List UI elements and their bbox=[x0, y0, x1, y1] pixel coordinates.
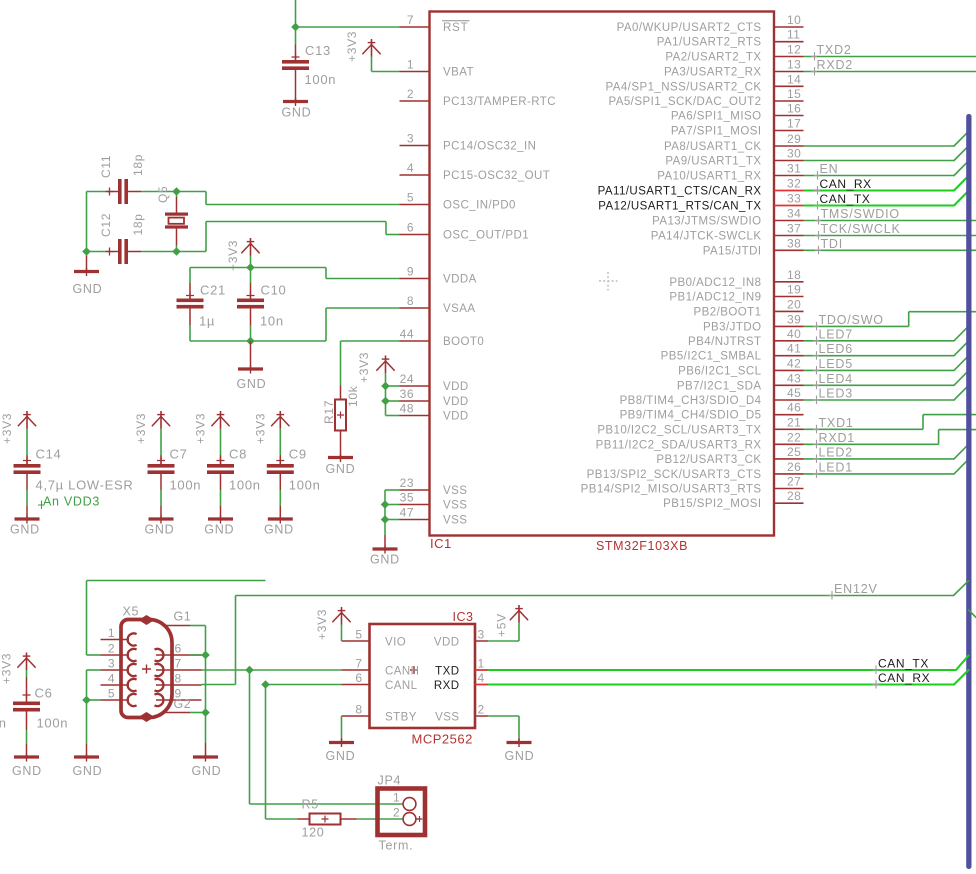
svg-text:RXD: RXD bbox=[434, 680, 460, 692]
svg-text:47: 47 bbox=[400, 506, 414, 520]
wire pin 32 to bus bbox=[804, 189, 955, 191]
svg-text:PB3/JTDO: PB3/JTDO bbox=[703, 321, 762, 333]
svg-text:8: 8 bbox=[355, 703, 362, 717]
svg-text:3: 3 bbox=[407, 132, 414, 146]
net label TMS/SWDIO bbox=[818, 216, 820, 225]
svg-text:C7: C7 bbox=[170, 447, 188, 462]
svg-text:GND: GND bbox=[326, 749, 356, 763]
wire pin 31 to bus bbox=[804, 175, 955, 177]
svg-text:C11: C11 bbox=[99, 155, 113, 178]
IC1 pin 5 OSC_IN/PD0 bbox=[400, 204, 430, 206]
svg-text:11: 11 bbox=[787, 28, 800, 42]
IC1 pin 19 PB1/ADC12_IN9 bbox=[774, 296, 804, 298]
svg-text:42: 42 bbox=[787, 356, 801, 370]
svg-text:PA1/USART2_RTS: PA1/USART2_RTS bbox=[657, 37, 762, 49]
net label RXD2 bbox=[814, 67, 816, 76]
net label LED7 bbox=[816, 336, 818, 345]
svg-text:18p: 18p bbox=[131, 213, 145, 235]
IC1 pin 35 VSS bbox=[400, 504, 430, 506]
IC1 pin 31 PA10/USART1_RX bbox=[774, 175, 804, 177]
wire VSS to ground bbox=[488, 715, 519, 717]
wire pin 25 to bus bbox=[804, 458, 955, 460]
svg-text:4: 4 bbox=[478, 671, 485, 685]
svg-text:PA12/USART1_RTS/CAN_TX: PA12/USART1_RTS/CAN_TX bbox=[598, 201, 761, 213]
net label CAN_TX bottom bbox=[875, 666, 877, 675]
svg-text:5: 5 bbox=[407, 191, 414, 205]
wire X5 pin2 CANL riser bbox=[87, 654, 101, 656]
IC1 pin 45 PB8/TIM4_CH3/SDIO_D4 bbox=[774, 399, 804, 401]
svg-text:100n: 100n bbox=[289, 478, 321, 493]
svg-text:Term.: Term. bbox=[379, 839, 414, 853]
svg-text:CAN_TX: CAN_TX bbox=[820, 192, 871, 206]
svg-text:100n: 100n bbox=[37, 716, 69, 731]
svg-text:100n: 100n bbox=[305, 72, 337, 87]
svg-text:+3V3: +3V3 bbox=[357, 352, 371, 383]
svg-text:2: 2 bbox=[407, 87, 414, 101]
wire pin 22 step to edge bbox=[804, 443, 939, 445]
svg-text:40: 40 bbox=[787, 327, 801, 341]
wire pin 33 to bus bbox=[804, 204, 955, 206]
svg-text:VSS: VSS bbox=[435, 712, 459, 724]
svg-text:GND: GND bbox=[192, 764, 222, 778]
ground below R17 bbox=[328, 456, 353, 459]
IC1 pin 18 PB0/ADC12_IN8 bbox=[774, 281, 804, 283]
svg-text:C6: C6 bbox=[35, 686, 53, 701]
net label CAN_RX bbox=[817, 186, 819, 195]
X5 contact left y685 bbox=[128, 679, 137, 691]
svg-text:5: 5 bbox=[108, 687, 115, 701]
ground below X5 bbox=[86, 700, 88, 744]
svg-text:STBY: STBY bbox=[385, 712, 417, 724]
svg-text:GND: GND bbox=[145, 523, 175, 537]
svg-text:X5: X5 bbox=[123, 605, 140, 619]
X5 pin 8 bbox=[156, 684, 202, 686]
svg-text:VBAT: VBAT bbox=[443, 67, 474, 79]
svg-text:GND: GND bbox=[73, 764, 103, 778]
net label TXD1 bbox=[816, 425, 818, 434]
svg-text:PA5/SPI1_SCK/DAC_OUT2: PA5/SPI1_SCK/DAC_OUT2 bbox=[608, 96, 761, 108]
svg-text:PA13/JTMS/SWDIO: PA13/JTMS/SWDIO bbox=[652, 216, 761, 228]
net label LED4 bbox=[816, 381, 818, 390]
wire G1 G2 shield bbox=[190, 625, 206, 627]
svg-text:8: 8 bbox=[175, 672, 182, 686]
svg-text:28: 28 bbox=[787, 489, 801, 503]
svg-text:7: 7 bbox=[175, 657, 182, 671]
svg-text:TXD1: TXD1 bbox=[819, 416, 854, 430]
svg-text:PB6/I2C1_SCL: PB6/I2C1_SCL bbox=[678, 365, 762, 377]
svg-text:7: 7 bbox=[407, 13, 414, 27]
svg-text:35: 35 bbox=[400, 491, 414, 505]
svg-text:23: 23 bbox=[400, 476, 414, 490]
net label EN12V bbox=[831, 591, 833, 600]
power +3V3 C7 bbox=[160, 411, 162, 429]
svg-text:C21: C21 bbox=[200, 283, 226, 298]
IC1 pin 33 PA12/USART1_RTS/CAN_TX bbox=[774, 205, 804, 207]
svg-text:14: 14 bbox=[787, 72, 801, 86]
op-amp U1 IC1 STM32F103XB body bbox=[430, 12, 775, 536]
ground below C11 C12 bbox=[86, 252, 88, 257]
X5 pin 9 bbox=[156, 699, 202, 701]
IC1 pin 1 VBAT bbox=[400, 71, 430, 73]
crystal Q5 bbox=[176, 192, 178, 198]
IC3 pin 6 CANL bbox=[342, 684, 370, 686]
IC1 pin 15 PA5/SPI1_SCK/DAC_OUT2 bbox=[774, 100, 804, 102]
wire CANL to R5 bbox=[265, 685, 267, 820]
ground below C8 bbox=[208, 517, 233, 520]
wire pin 41 to bus bbox=[804, 355, 955, 357]
wire R5 to JP4 pin2 bbox=[357, 818, 404, 820]
svg-text:TDI: TDI bbox=[821, 237, 844, 251]
svg-text:+3V3: +3V3 bbox=[134, 413, 148, 444]
IC3 pin 5 VIO bbox=[342, 640, 370, 642]
X5 contact right y700 bbox=[155, 694, 164, 706]
IC1 pin 17 PA7/SPI1_MOSI bbox=[774, 130, 804, 132]
wire pin 43 to bus bbox=[804, 384, 955, 386]
svg-text:4: 4 bbox=[108, 672, 115, 686]
junction shield G2 bbox=[201, 708, 210, 717]
net label LED5 bbox=[816, 366, 818, 375]
IC3 pin 2 VSS bbox=[475, 715, 488, 717]
IC1 pin 21 PB10/I2C2_SCL/USART3_TX bbox=[774, 428, 804, 430]
svg-text:TXD2: TXD2 bbox=[817, 43, 852, 57]
svg-text:29: 29 bbox=[787, 132, 801, 146]
IC1 pin 23 VSS bbox=[400, 489, 430, 491]
power +3V3 C6 bbox=[26, 653, 28, 671]
svg-text:VSS: VSS bbox=[443, 485, 467, 497]
junction CANL bbox=[261, 680, 270, 689]
svg-text:VDDA: VDDA bbox=[443, 274, 477, 286]
svg-text:2: 2 bbox=[108, 642, 115, 656]
svg-text:CAN_RX: CAN_RX bbox=[878, 671, 930, 685]
svg-text:12: 12 bbox=[787, 43, 801, 57]
junction VDD 36 bbox=[381, 397, 390, 406]
IC1 pin 39 PB3/JTDO bbox=[774, 325, 804, 327]
svg-text:30: 30 bbox=[787, 147, 801, 161]
svg-text:PA10/USART1_RX: PA10/USART1_RX bbox=[657, 171, 761, 183]
X5 pin G1 bbox=[162, 625, 190, 627]
svg-text:GND: GND bbox=[282, 106, 312, 120]
wire pin 39 step to edge bbox=[804, 325, 909, 327]
IC1 origin cross bbox=[599, 272, 618, 291]
svg-text:LED2: LED2 bbox=[819, 445, 853, 459]
svg-text:VSS: VSS bbox=[443, 515, 467, 527]
connector X5 shell bbox=[121, 620, 172, 718]
svg-text:PC13/TAMPER-RTC: PC13/TAMPER-RTC bbox=[443, 96, 556, 108]
IC1 pin 6 OSC_OUT/PD1 bbox=[400, 234, 430, 236]
svg-text:18p: 18p bbox=[131, 154, 145, 176]
wire VDD rail bbox=[385, 386, 387, 416]
svg-text:GND: GND bbox=[73, 282, 103, 296]
power +5V IC3 bbox=[518, 605, 520, 623]
capacitor C8 bbox=[220, 455, 222, 464]
svg-text:RXD1: RXD1 bbox=[819, 431, 856, 445]
svg-text:PB12/USART3_CK: PB12/USART3_CK bbox=[656, 454, 761, 466]
wire OSC_OUT bbox=[177, 251, 207, 253]
svg-text:PA15/JTDI: PA15/JTDI bbox=[703, 245, 762, 257]
svg-text:TCK/SWCLK: TCK/SWCLK bbox=[821, 222, 901, 236]
IC3 pin 3 VDD bbox=[475, 640, 488, 642]
svg-text:LED5: LED5 bbox=[819, 357, 853, 371]
svg-text:VIO: VIO bbox=[385, 637, 406, 649]
IC1 pin 22 PB11/I2C2_SDA/USART3_RX bbox=[774, 443, 804, 445]
X5 contact left y670 bbox=[128, 664, 137, 676]
junction GND rail bbox=[246, 337, 255, 346]
wire CANH bbox=[202, 669, 342, 671]
capacitor C10 bbox=[250, 268, 252, 284]
svg-text:38: 38 bbox=[787, 236, 801, 250]
svg-text:33: 33 bbox=[787, 192, 801, 206]
capacitor C12 bbox=[87, 251, 108, 253]
svg-text:PB11/I2C2_SDA/USART3_RX: PB11/I2C2_SDA/USART3_RX bbox=[596, 439, 762, 451]
svg-text:6: 6 bbox=[407, 221, 414, 235]
svg-text:GND: GND bbox=[204, 523, 234, 537]
junction X5 ground bbox=[82, 696, 91, 705]
svg-text:10n: 10n bbox=[260, 314, 284, 329]
wire GND bottom rail bbox=[190, 340, 326, 342]
resistor R5 bbox=[298, 818, 310, 820]
ground below X5 shield bbox=[205, 743, 207, 756]
svg-text:15: 15 bbox=[787, 87, 801, 101]
IC1 pin 14 PA4/SP1_NSS/USART2_CK bbox=[774, 85, 804, 87]
svg-text:PB0/ADC12_IN8: PB0/ADC12_IN8 bbox=[669, 277, 761, 289]
IC1 pin 48 VDD bbox=[400, 415, 430, 417]
svg-text:PA7/SPI1_MOSI: PA7/SPI1_MOSI bbox=[671, 126, 762, 138]
junction RST bbox=[291, 23, 300, 32]
svg-text:R5: R5 bbox=[302, 798, 319, 812]
wire X5 pin5 bbox=[87, 699, 101, 701]
junction C11 left bbox=[82, 247, 91, 256]
X5 pin 4 bbox=[101, 684, 130, 686]
IC1 pin 3 PC14/OSC32_IN bbox=[400, 145, 430, 147]
svg-text:PA9/USART1_TX: PA9/USART1_TX bbox=[665, 156, 761, 168]
wire VSS rail bbox=[384, 490, 386, 535]
svg-text:7: 7 bbox=[355, 657, 362, 671]
svg-text:2: 2 bbox=[393, 806, 400, 820]
svg-text:Q5: Q5 bbox=[156, 186, 170, 203]
X5 contact left y639.5 bbox=[128, 633, 137, 645]
svg-text:RST: RST bbox=[443, 22, 468, 34]
svg-text:1µ: 1µ bbox=[199, 314, 215, 329]
svg-text:46: 46 bbox=[787, 401, 801, 415]
net label LED2 bbox=[816, 454, 818, 463]
net label TDI bbox=[818, 246, 820, 255]
IC3 pin 8 STBY bbox=[342, 715, 370, 717]
IC1 pin 16 PA6/SPI1_MISO bbox=[774, 115, 804, 117]
IC1 pin 20 PB2/BOOT1 bbox=[774, 310, 804, 312]
svg-text:PB8/TIM4_CH3/SDIO_D4: PB8/TIM4_CH3/SDIO_D4 bbox=[620, 395, 762, 407]
svg-text:6: 6 bbox=[175, 642, 182, 656]
capacitor C21 bbox=[189, 268, 191, 284]
X5 contact right y655 bbox=[155, 649, 164, 661]
svg-text:LED6: LED6 bbox=[819, 342, 853, 356]
X5 contact right y670 bbox=[155, 664, 164, 676]
svg-text:39: 39 bbox=[787, 312, 801, 326]
X5 contact right y685 bbox=[155, 679, 164, 691]
wire pin 34 to edge bbox=[804, 220, 976, 222]
svg-text:36: 36 bbox=[400, 387, 414, 401]
wire pin 13 to edge bbox=[804, 71, 976, 73]
wire pin 30 to bus bbox=[804, 160, 955, 162]
svg-text:+3V3: +3V3 bbox=[194, 413, 208, 444]
svg-text:PA4/SP1_NSS/USART2_CK: PA4/SP1_NSS/USART2_CK bbox=[605, 81, 761, 93]
svg-text:20: 20 bbox=[787, 297, 801, 311]
net label LED3 bbox=[816, 396, 818, 405]
svg-text:PA3/USART2_RX: PA3/USART2_RX bbox=[664, 67, 761, 79]
capacitor C6 bbox=[26, 677, 28, 702]
svg-text:31: 31 bbox=[787, 162, 801, 176]
svg-text:PC15-OSC32_OUT: PC15-OSC32_OUT bbox=[443, 170, 550, 182]
X5 pin 1 bbox=[101, 639, 130, 641]
svg-text:OSC_OUT/PD1: OSC_OUT/PD1 bbox=[443, 230, 529, 242]
net label CAN_TX bbox=[817, 201, 819, 210]
wire X5 pin3 to ground bbox=[87, 669, 101, 671]
op-amp U2 IC3 MCP2562 body bbox=[370, 624, 476, 728]
IC3 pin 4 RXD bbox=[475, 684, 488, 686]
X5 pin 3 bbox=[101, 669, 130, 671]
IC1 pin 8 VSAA bbox=[400, 307, 430, 309]
IC1 pin 32 PA11/USART1_CTS/CAN_RX bbox=[774, 190, 804, 192]
junction VSS 35 bbox=[381, 500, 390, 509]
power +3V3 C14 bbox=[26, 411, 28, 429]
svg-text:1: 1 bbox=[393, 791, 400, 805]
svg-text:2: 2 bbox=[478, 703, 485, 717]
svg-text:C14: C14 bbox=[36, 447, 62, 462]
svg-text:An VDD3: An VDD3 bbox=[43, 495, 100, 509]
wire pin 38 to edge bbox=[804, 249, 976, 251]
svg-text:CANH: CANH bbox=[385, 666, 419, 678]
net label LED1 bbox=[816, 469, 818, 478]
svg-text:PA8/USART1_CK: PA8/USART1_CK bbox=[664, 141, 761, 153]
junction VDDA rail bbox=[246, 263, 255, 272]
svg-text:PB14/SPI2_MISO/USART3_RTS: PB14/SPI2_MISO/USART3_RTS bbox=[581, 484, 762, 496]
svg-text:G2: G2 bbox=[174, 697, 192, 711]
svg-text:17: 17 bbox=[787, 117, 801, 131]
svg-text:PA2/USART2_TX: PA2/USART2_TX bbox=[665, 52, 761, 64]
power +3V3 VBAT bbox=[371, 39, 373, 57]
IC1 pin 24 VDD bbox=[400, 385, 430, 387]
svg-text:R17: R17 bbox=[322, 400, 336, 424]
svg-text:VSS: VSS bbox=[443, 500, 467, 512]
svg-text:VDD: VDD bbox=[434, 637, 460, 649]
svg-text:CAN_RX: CAN_RX bbox=[820, 177, 872, 191]
svg-text:9: 9 bbox=[407, 265, 414, 279]
svg-text:C12: C12 bbox=[99, 213, 113, 237]
svg-text:OSC_IN/PD0: OSC_IN/PD0 bbox=[443, 200, 516, 212]
svg-text:+3V3: +3V3 bbox=[345, 31, 359, 62]
capacitor C14 bbox=[26, 455, 28, 464]
power +3V3 VDD bbox=[385, 356, 387, 374]
svg-text:RXD2: RXD2 bbox=[817, 58, 854, 72]
X5 contact left y655 bbox=[128, 649, 137, 661]
svg-text:GND: GND bbox=[12, 764, 42, 778]
svg-text:PC14/OSC32_IN: PC14/OSC32_IN bbox=[443, 141, 536, 153]
svg-text:PB10/I2C2_SCL/USART3_TX: PB10/I2C2_SCL/USART3_TX bbox=[597, 424, 761, 436]
ground below C7 bbox=[149, 517, 174, 520]
svg-text:10: 10 bbox=[787, 13, 801, 27]
IC1 pin 34 PA13/JTMS/SWDIO bbox=[774, 220, 804, 222]
svg-text:3: 3 bbox=[108, 657, 115, 671]
svg-text:27: 27 bbox=[787, 475, 801, 489]
svg-text:100n: 100n bbox=[0, 716, 7, 731]
IC1 pin 13 PA3/USART2_RX bbox=[774, 71, 804, 73]
svg-text:CAN_TX: CAN_TX bbox=[878, 657, 929, 671]
IC1 pin 43 PB7/I2C1_SDA bbox=[774, 384, 804, 386]
svg-text:BOOT0: BOOT0 bbox=[443, 336, 484, 348]
svg-text:PB2/BOOT1: PB2/BOOT1 bbox=[694, 306, 762, 318]
svg-text:1: 1 bbox=[407, 58, 414, 72]
wire CANL bbox=[266, 684, 342, 686]
capacitor C9 bbox=[279, 455, 281, 464]
svg-text:+3V3: +3V3 bbox=[315, 609, 329, 640]
IC1 pin 25 PB12/USART3_CK bbox=[774, 458, 804, 460]
svg-text:PB13/SPI2_SCK/USART3_CTS: PB13/SPI2_SCK/USART3_CTS bbox=[587, 469, 762, 481]
label An VDD3 bbox=[38, 501, 45, 510]
svg-text:MCP2562: MCP2562 bbox=[412, 732, 473, 747]
junction VDD 24 bbox=[381, 382, 390, 391]
connector JP4 bbox=[378, 789, 426, 836]
svg-text:44: 44 bbox=[400, 327, 414, 341]
svg-text:10k: 10k bbox=[346, 385, 360, 407]
svg-text:G1: G1 bbox=[174, 610, 192, 624]
IC1 pin 41 PB5/I2C1_SMBAL bbox=[774, 355, 804, 357]
X5 pin 7 bbox=[156, 669, 202, 671]
wire pin 21 step to edge bbox=[804, 428, 924, 430]
svg-text:22: 22 bbox=[787, 430, 801, 444]
net label EN bbox=[817, 171, 819, 180]
svg-text:C13: C13 bbox=[305, 43, 331, 58]
junction Q5 top bbox=[172, 187, 181, 196]
svg-text:PB4/NJTRST: PB4/NJTRST bbox=[688, 336, 762, 348]
svg-text:LED3: LED3 bbox=[819, 387, 853, 401]
junction VSS 47 bbox=[381, 515, 390, 524]
IC1 pin 30 PA9/USART1_TX bbox=[774, 160, 804, 162]
svg-text:+5V: +5V bbox=[495, 613, 509, 637]
svg-text:37: 37 bbox=[787, 222, 801, 236]
IC1 pin 10 PA0/WKUP/USART2_CTS bbox=[774, 26, 804, 28]
svg-text:PB15/SPI2_MOSI: PB15/SPI2_MOSI bbox=[663, 498, 761, 510]
capacitor C13 bbox=[295, 27, 297, 45]
X5 pin 2 bbox=[101, 654, 130, 656]
net label LED6 bbox=[816, 351, 818, 360]
svg-text:TXD: TXD bbox=[435, 666, 459, 678]
svg-text:PB9/TIM4_CH4/SDIO_D5: PB9/TIM4_CH4/SDIO_D5 bbox=[620, 410, 762, 422]
net label TXD2 bbox=[814, 52, 816, 61]
ground below C10 bbox=[250, 341, 252, 368]
svg-text:VSAA: VSAA bbox=[443, 303, 475, 315]
ground below VSS bbox=[384, 535, 386, 548]
svg-text:PA11/USART1_CTS/CAN_RX: PA11/USART1_CTS/CAN_RX bbox=[598, 186, 762, 198]
X5 contact left y700 bbox=[128, 694, 137, 706]
junction shield pin6 bbox=[201, 651, 210, 660]
ground below STBY bbox=[329, 741, 354, 744]
net label CAN_RX bottom bbox=[875, 680, 877, 689]
IC1 pin 12 PA2/USART2_TX bbox=[774, 56, 804, 58]
svg-text:VDD: VDD bbox=[443, 396, 469, 408]
IC1 pin 4 PC15-OSC32_OUT bbox=[400, 174, 430, 176]
svg-text:+3V3: +3V3 bbox=[253, 413, 267, 444]
IC1 pin 11 PA1/USART2_RTS bbox=[774, 41, 804, 43]
power +3V3 IC3 bbox=[341, 607, 343, 625]
wire VDDA top rail bbox=[190, 267, 326, 269]
IC3 pin 7 CANH bbox=[342, 669, 370, 671]
X5 pin G2 bbox=[162, 712, 190, 714]
svg-text:+3V3: +3V3 bbox=[226, 240, 240, 271]
wire STBY to ground bbox=[341, 716, 343, 738]
wire pin 12 to edge bbox=[804, 56, 976, 58]
svg-text:1: 1 bbox=[108, 626, 115, 640]
IC1 pin 9 VDDA bbox=[400, 278, 430, 280]
IC1 pin 2 PC13/TAMPER-RTC bbox=[400, 100, 430, 102]
